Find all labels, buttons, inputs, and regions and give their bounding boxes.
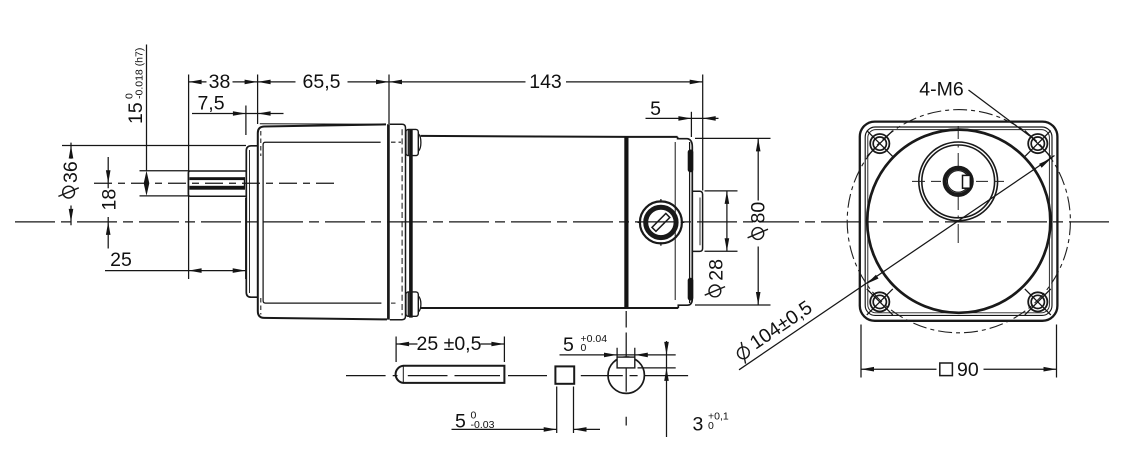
gearbox housing: [258, 124, 387, 319]
front view flange square: [860, 122, 1058, 321]
svg-text:18: 18: [99, 189, 121, 211]
dimension dia 28: [705, 191, 738, 297]
motor flange line: [409, 130, 413, 318]
dimension 38: [189, 71, 258, 93]
motor / cap boundary (thick): [624, 137, 628, 308]
cap clips: [688, 150, 694, 173]
svg-text:80: 80: [748, 202, 770, 224]
svg-text:36: 36: [60, 161, 82, 183]
key detail axis: [346, 375, 688, 377]
boss centerlines: [912, 180, 1004, 182]
section axis vertical: [625, 311, 627, 426]
front keyway: [963, 175, 971, 188]
dimension 5 rear: [646, 98, 719, 137]
dimension dia 80: [695, 138, 771, 305]
extension line 38/65.5: [257, 75, 259, 125]
dimension dia 104 diagonal: [731, 156, 1054, 370]
svg-text:-0.03: -0.03: [471, 419, 495, 431]
svg-text:90: 90: [957, 359, 979, 381]
dimension 25 shaft: [105, 198, 246, 279]
flange inner outline: [865, 127, 1052, 315]
dimension 7,5: [192, 93, 284, 136]
svg-text:5: 5: [563, 334, 574, 356]
shaft keyway bands: [189, 177, 244, 180]
dimension dia 36: [58, 143, 246, 226]
boss circles front: [919, 142, 998, 221]
svg-text:65,5: 65,5: [303, 71, 341, 93]
dimension 15 h7: [124, 45, 190, 196]
M6 hole bottom-left: [867, 289, 893, 315]
M6 hole bottom-right: [1025, 289, 1051, 315]
svg-text:3: 3: [693, 414, 704, 436]
adapter ring: [390, 124, 406, 319]
dimension 65,5: [258, 71, 389, 93]
dimension 18 offset: [99, 157, 121, 249]
key side view: [396, 366, 505, 383]
front shaft circle: [945, 168, 972, 195]
rear cap outline: [678, 137, 693, 308]
dimension 5 +0.04 keyway: [560, 333, 676, 358]
dimension square 90: [861, 325, 1057, 382]
dimension 25 +-0,5: [396, 333, 504, 362]
4-M6 label and leader: [919, 79, 1030, 137]
dimension 143: [389, 71, 703, 93]
svg-text:28: 28: [705, 259, 727, 281]
svg-text:5: 5: [455, 411, 466, 433]
output shaft: [188, 171, 246, 196]
motor clamp tab bottom: [406, 292, 421, 316]
svg-text:-0.018 (h7): -0.018 (h7): [134, 48, 146, 99]
svg-text:15: 15: [125, 102, 147, 124]
shaft cross-section circle: [608, 357, 644, 393]
svg-text:7,5: 7,5: [197, 93, 224, 115]
extension line 143 right: [702, 75, 704, 191]
svg-text:0: 0: [708, 420, 714, 432]
svg-text:0: 0: [581, 342, 587, 354]
dimension 3 +0,1 keyway depth: [638, 341, 729, 437]
svg-text:25 ±0,5: 25 ±0,5: [417, 333, 482, 355]
adapter hidden line: [401, 129, 403, 315]
svg-text:4-M6: 4-M6: [919, 79, 963, 101]
motor body edges: [421, 136, 678, 137]
rear screw head: [638, 199, 685, 246]
svg-text:38: 38: [209, 71, 231, 93]
extension line 65.5/143: [388, 75, 390, 125]
svg-text:25: 25: [110, 249, 132, 271]
flange inner outline 2: [868, 130, 1050, 313]
svg-text:5: 5: [650, 98, 661, 120]
output shaft axis: [94, 182, 334, 184]
extension line 38 left: [188, 75, 190, 280]
main centerline (motor axis): [15, 221, 1113, 223]
motor circle front: [867, 130, 1050, 313]
dimension 5 -0.03: [452, 387, 601, 434]
gearbox right face: [387, 124, 390, 319]
key cross-section square: [555, 366, 574, 383]
gearbox inner outline: [263, 142, 381, 303]
M6 hole top-right: [1025, 131, 1051, 157]
output flange plate: [246, 146, 258, 297]
M6 hole top-left: [867, 131, 893, 157]
bolt circle dash-dot: [847, 110, 1070, 333]
svg-text:143: 143: [529, 71, 562, 93]
gearbox hidden bore line: [260, 131, 262, 156]
motor clamp tab top: [406, 129, 421, 155]
rear boss: [692, 191, 702, 251]
